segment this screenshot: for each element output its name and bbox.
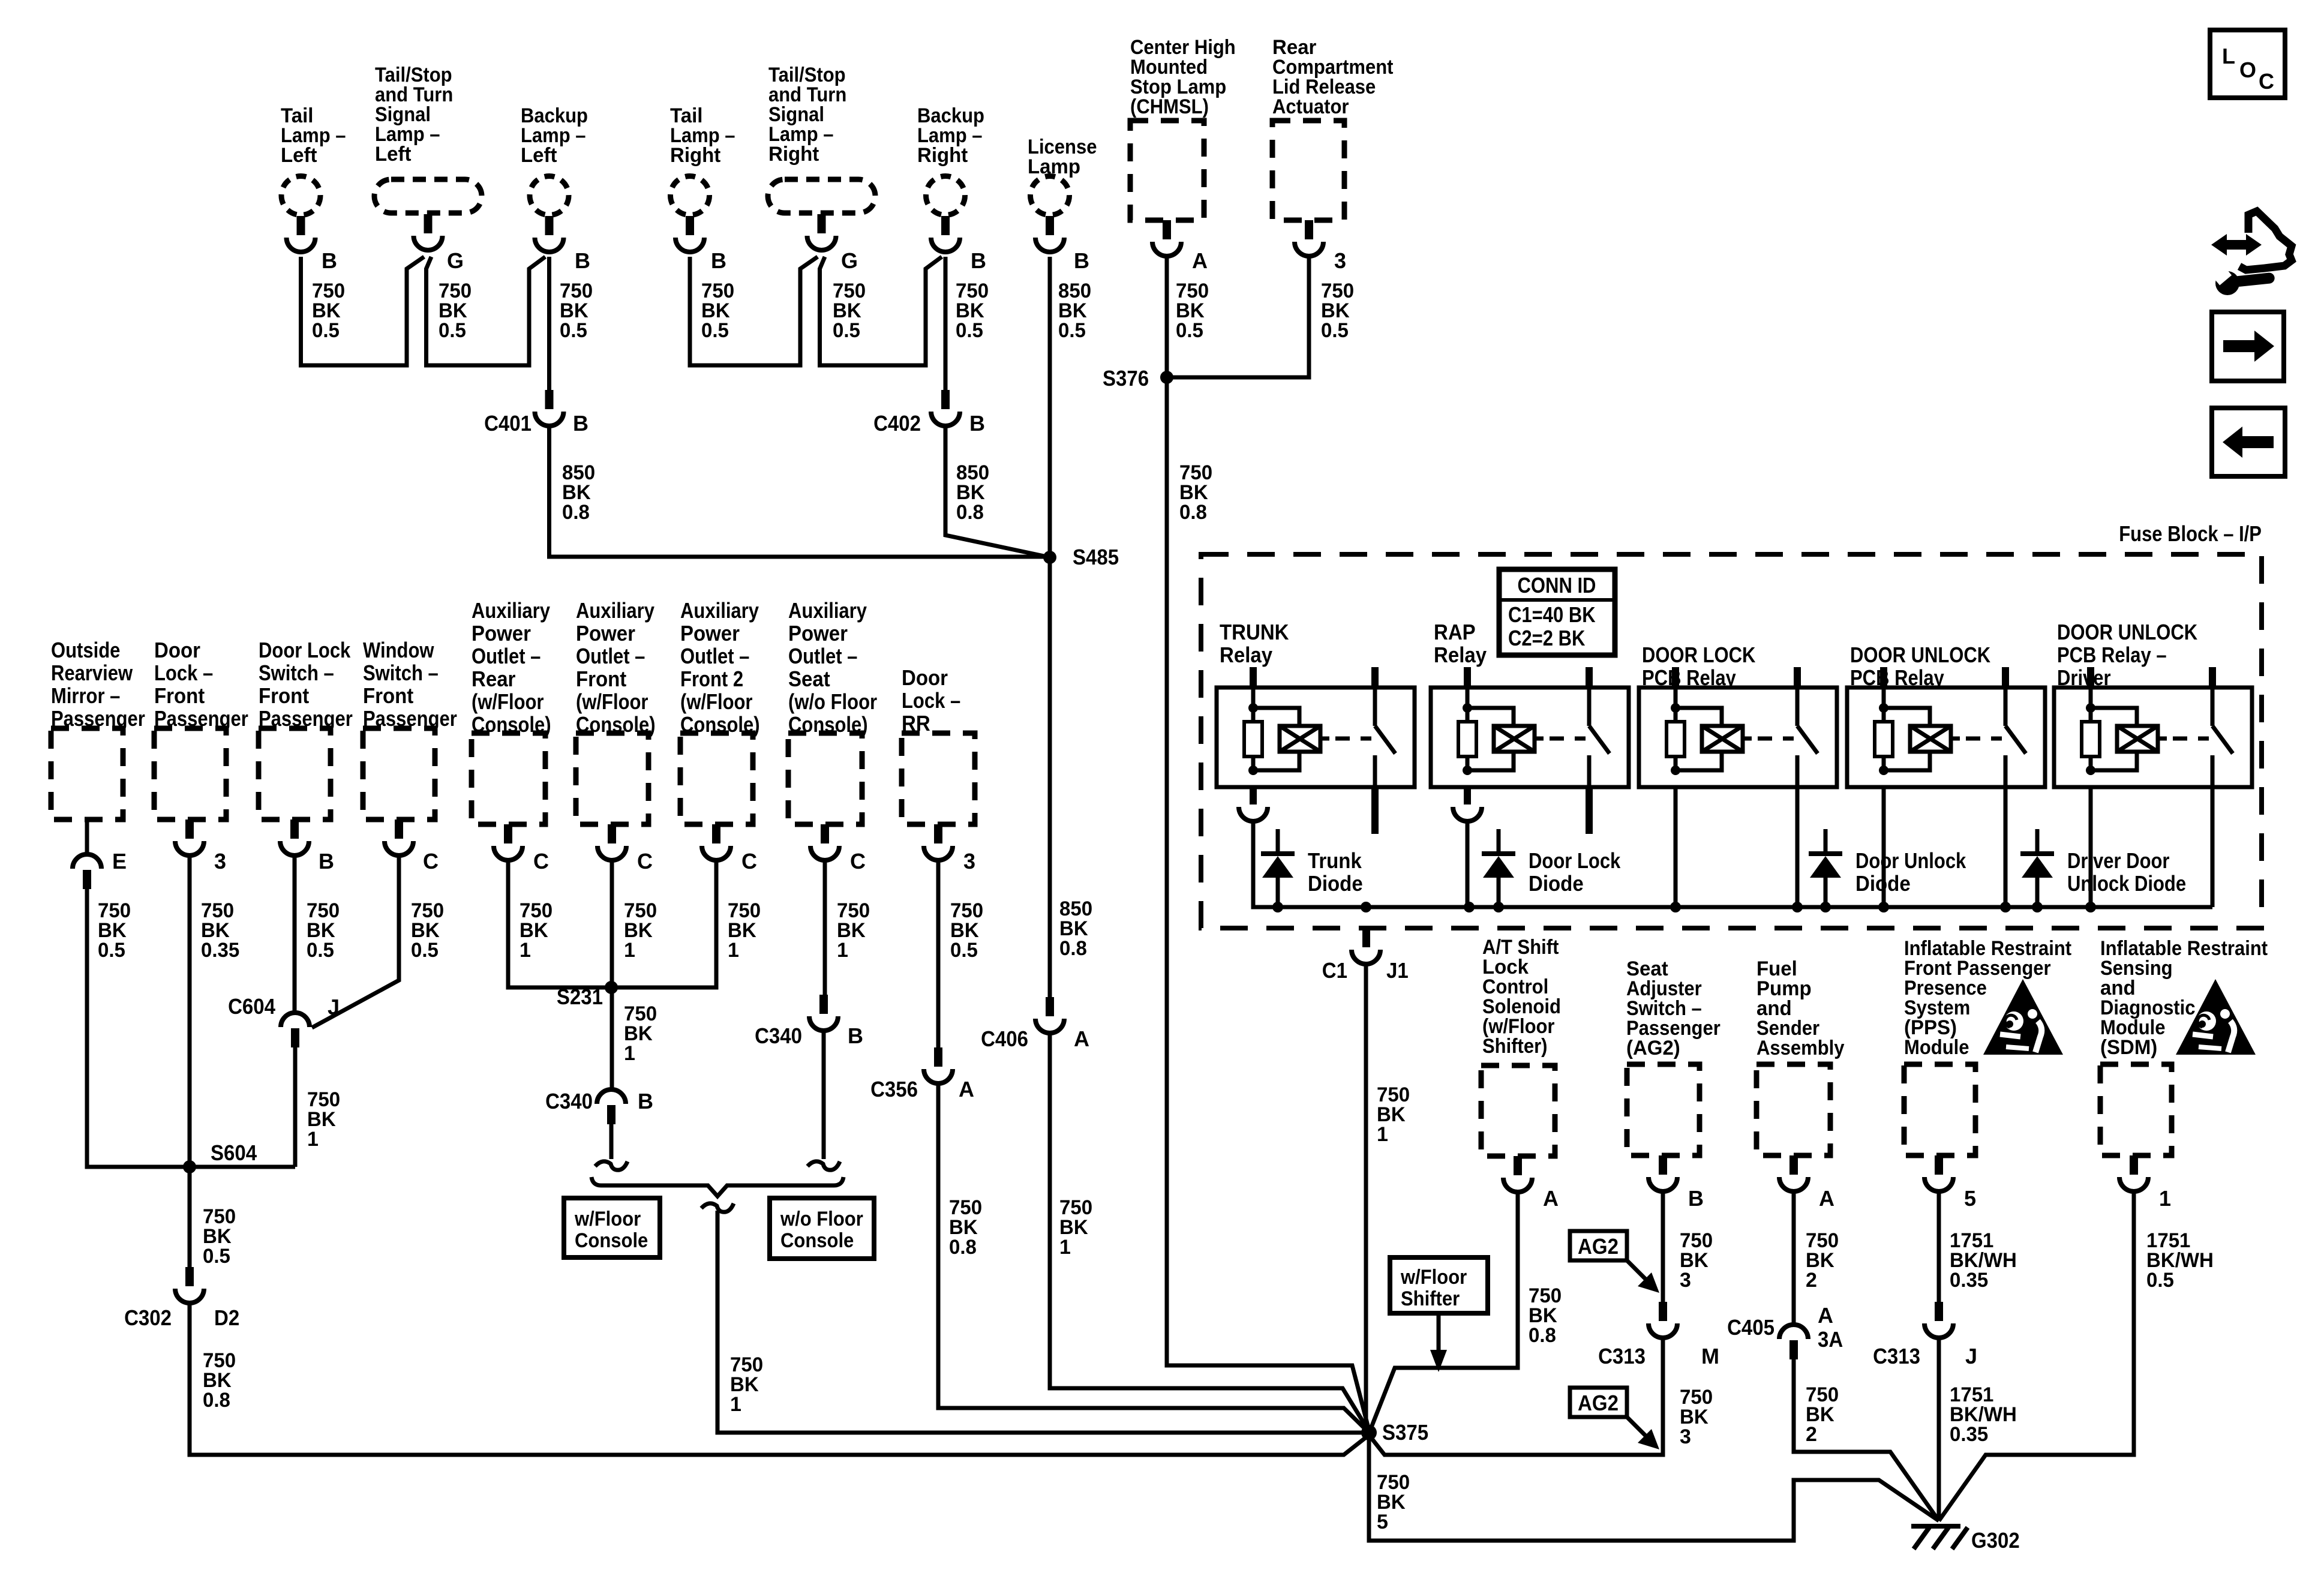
relay DOOR UNLOCK PCB relay coil link wires xyxy=(1884,708,1930,726)
component Auxiliary Power Outlet - Front 2 box xyxy=(680,733,753,824)
wire aux seat to C340 xyxy=(823,860,827,995)
svg-text:C340: C340 xyxy=(545,1089,593,1113)
svg-text:RAP: RAP xyxy=(1434,620,1476,644)
svg-text:0.8: 0.8 xyxy=(956,501,984,524)
wire window switch diagonal to C604 xyxy=(312,855,399,1028)
diode Door Lock diode xyxy=(1497,829,1501,852)
relay DOOR LOCK PCB relay coil circuit xyxy=(1674,688,1678,722)
svg-text:1: 1 xyxy=(1059,1236,1071,1259)
component SDM box xyxy=(2100,1064,2172,1155)
svg-text:0.35: 0.35 xyxy=(1950,1269,1988,1292)
svg-text:C313: C313 xyxy=(1598,1344,1646,1368)
svg-text:0.5: 0.5 xyxy=(439,319,466,342)
svg-text:1: 1 xyxy=(624,939,635,962)
relay RAP relay coil link wires xyxy=(1467,708,1514,726)
svg-text:C: C xyxy=(741,849,757,873)
lamp License Lamp xyxy=(1031,176,1070,215)
svg-text:Right: Right xyxy=(670,144,720,167)
diode Driver Door Unlock diode xyxy=(2035,829,2040,852)
lamp L2 Tail/Stop and Turn Signal Lamp - Left xyxy=(374,179,482,213)
svg-text:C2=2 BK: C2=2 BK xyxy=(1508,626,1585,650)
connector C604 xyxy=(281,1013,310,1027)
warning triangle icon (PPS) xyxy=(1983,979,2063,1055)
w/Floor Shifter arrow xyxy=(1437,1313,1441,1351)
relay DOOR UNLOCK PCB relay - Driver switch contact xyxy=(2211,688,2215,726)
connector E (mirror) xyxy=(73,854,101,869)
lamp L3 Backup Lamp - Left xyxy=(530,176,569,215)
svg-text:B: B xyxy=(638,1089,653,1113)
svg-text:w/Floor: w/Floor xyxy=(1400,1266,1467,1289)
branch end squiggle (w/o floor console) xyxy=(807,1161,840,1170)
svg-text:0.5: 0.5 xyxy=(203,1245,230,1268)
fuse block dashed border xyxy=(1201,554,2262,928)
connector pin C (aux rear) xyxy=(504,824,512,843)
svg-text:C: C xyxy=(850,849,866,873)
lamp R3 Backup Lamp - Right xyxy=(926,176,965,215)
lamp L1 Tail Lamp - Left xyxy=(281,176,320,215)
component Rear Compartment Lid Release Actuator box xyxy=(1272,121,1344,220)
lamp R1 Tail Lamp - Right xyxy=(671,176,710,215)
connector pin 5 (PPS) xyxy=(1935,1155,1943,1175)
wire C313 J to G302 xyxy=(1937,1338,1941,1521)
connector C402 xyxy=(941,390,950,409)
svg-text:Driver Door: Driver Door xyxy=(2067,848,2170,873)
connector C1 / J1 xyxy=(1362,928,1370,947)
svg-text:AG2: AG2 xyxy=(1578,1234,1619,1259)
svg-text:C: C xyxy=(423,849,439,873)
relay RAP relay coil output connector xyxy=(1464,787,1471,804)
connector pin B (tail lamp left) xyxy=(297,216,305,235)
svg-text:Switch –: Switch – xyxy=(259,661,334,685)
svg-text:1: 1 xyxy=(728,939,739,962)
svg-text:A: A xyxy=(1818,1303,1833,1328)
wire A/T solenoid to S375 xyxy=(1370,1192,1518,1430)
wire tail/stop-right to backup-right xyxy=(820,257,942,365)
connector pin B (door lock switch) xyxy=(290,819,299,839)
wire seat adjuster to C313 M xyxy=(1661,1191,1665,1302)
relay DOOR UNLOCK PCB relay switch output wire to bus xyxy=(2004,787,2008,907)
lamp R2 Tail/Stop and Turn Signal Lamp - Right xyxy=(768,179,875,213)
connector C313 pin J xyxy=(1935,1302,1943,1321)
svg-text:D2: D2 xyxy=(214,1305,239,1330)
LOC legend box xyxy=(2210,30,2285,98)
brace joining floor-console branches xyxy=(591,1177,843,1196)
svg-text:Assembly: Assembly xyxy=(1756,1037,1845,1059)
splice S604 xyxy=(183,1160,196,1173)
relay DOOR UNLOCK PCB relay box xyxy=(1847,688,2045,787)
relay DOOR LOCK PCB relay coil link wires xyxy=(1676,708,1722,726)
relay DOOR UNLOCK PCB relay switch pin xyxy=(2002,667,2009,688)
svg-text:Door Unlock: Door Unlock xyxy=(1855,848,1966,873)
svg-text:Relay: Relay xyxy=(1434,643,1487,667)
connector pin B (seat adjuster) xyxy=(1659,1155,1667,1175)
svg-text:Front 2: Front 2 xyxy=(680,667,743,691)
wire aux rear to S231 xyxy=(508,860,611,987)
wire tail-right to tail/stop-right xyxy=(690,257,818,365)
CONN ID table xyxy=(1499,569,1615,655)
connector pin C (aux seat) xyxy=(821,824,829,843)
svg-text:Lock –: Lock – xyxy=(902,688,960,713)
svg-text:Auxiliary: Auxiliary xyxy=(576,598,654,623)
svg-text:O: O xyxy=(2239,58,2256,82)
svg-text:0.8: 0.8 xyxy=(1529,1324,1556,1347)
svg-text:0.5: 0.5 xyxy=(312,319,340,342)
svg-text:C1=40 BK: C1=40 BK xyxy=(1508,602,1596,627)
svg-text:3: 3 xyxy=(1334,248,1346,273)
component CHMSL box xyxy=(1130,121,1204,220)
component A/T Shift Lock Control Solenoid box xyxy=(1481,1065,1555,1156)
relay DOOR LOCK PCB relay switch output wire to bus xyxy=(1795,787,1800,907)
svg-text:0.5: 0.5 xyxy=(98,939,125,962)
wire lid release actuator to S376 xyxy=(1167,257,1309,377)
svg-text:Power: Power xyxy=(680,621,740,646)
connector pin 3 (door lock front passenger) xyxy=(185,819,194,839)
connector C340 (seat branch) xyxy=(819,995,828,1014)
component Window Switch - Front Passenger box xyxy=(363,728,435,819)
svg-text:1: 1 xyxy=(2159,1186,2171,1211)
component Auxiliary Power Outlet - Seat box xyxy=(788,733,862,824)
relay TRUNK relay coil output connector xyxy=(1250,787,1257,804)
splice S231 xyxy=(605,981,618,994)
wire C356 to S375 xyxy=(938,1083,1369,1433)
svg-text:B: B xyxy=(575,248,590,273)
connector pin G (tail/stop right) xyxy=(818,214,826,233)
svg-text:B: B xyxy=(969,411,985,436)
svg-text:1: 1 xyxy=(1377,1123,1388,1146)
svg-text:Auxiliary: Auxiliary xyxy=(680,598,759,623)
svg-text:Diode: Diode xyxy=(1308,871,1363,896)
relay DOOR UNLOCK PCB relay switch contact xyxy=(2004,688,2008,726)
svg-text:Outside: Outside xyxy=(51,638,120,662)
svg-text:Actuator: Actuator xyxy=(1272,95,1349,118)
connector C302 xyxy=(185,1267,194,1286)
AG2 arrow 2 xyxy=(1627,1417,1647,1437)
svg-text:B: B xyxy=(971,248,986,273)
relay DOOR LOCK PCB relay switch contact xyxy=(1795,688,1800,726)
splice S375 xyxy=(1361,1425,1377,1440)
relay DOOR UNLOCK PCB relay coil output wire to bus xyxy=(1882,787,1886,907)
svg-text:(w/Floor: (w/Floor xyxy=(472,689,544,714)
connector pin B (backup lamp right) xyxy=(941,216,950,235)
wire mirror E to S604 xyxy=(87,889,295,1167)
svg-text:C: C xyxy=(2259,69,2274,94)
component PPS Module box xyxy=(1904,1064,1975,1155)
svg-text:Power: Power xyxy=(788,621,848,646)
svg-text:Fuse Block – I/P: Fuse Block – I/P xyxy=(2119,521,2262,546)
svg-text:Door: Door xyxy=(154,638,200,662)
splice S485 xyxy=(1043,551,1056,564)
connector C340 (floor console harness) xyxy=(597,1089,626,1104)
svg-text:Unlock Diode: Unlock Diode xyxy=(2067,871,2186,896)
wire S375 ground lead 750 BK 5 xyxy=(1369,1433,1939,1541)
warning triangle icon (SDM) xyxy=(2176,979,2256,1055)
svg-text:0.5: 0.5 xyxy=(2146,1269,2174,1292)
wire door lock RR to C356 xyxy=(936,860,941,1047)
branch continuation squiggle below brace xyxy=(701,1203,734,1212)
svg-text:PCB Relay –: PCB Relay – xyxy=(2057,643,2167,667)
relay RAP relay box xyxy=(1431,688,1629,787)
svg-text:A: A xyxy=(1074,1026,1089,1051)
svg-text:w/o Floor: w/o Floor xyxy=(780,1208,863,1230)
svg-text:Auxiliary: Auxiliary xyxy=(788,598,867,623)
relay DOOR UNLOCK PCB relay coil pin xyxy=(1880,667,1887,688)
connector C401 xyxy=(545,390,554,409)
relay RAP relay switch pin xyxy=(1586,667,1593,688)
wire door lock switch down to C604 xyxy=(293,855,297,1013)
relay DOOR LOCK PCB relay coil symbol xyxy=(1702,726,1743,752)
relay TRUNK relay box xyxy=(1217,688,1415,787)
svg-text:1: 1 xyxy=(730,1393,741,1416)
wire PPS to C313 J xyxy=(1937,1191,1941,1302)
svg-text:Outlet –: Outlet – xyxy=(576,644,645,668)
wire backup-right down to C402 xyxy=(944,257,948,390)
wire backup-left down to C401 xyxy=(547,257,551,390)
AG2 tag box 2 xyxy=(1570,1388,1627,1417)
relay RAP relay coil symbol xyxy=(1494,726,1535,752)
relay DOOR UNLOCK PCB relay - Driver box xyxy=(2054,688,2252,787)
wire CHMSL down to S376 and S375 xyxy=(1167,257,1369,1430)
wire C401 to S485 xyxy=(550,426,1050,557)
svg-text:0.5: 0.5 xyxy=(1321,319,1349,342)
svg-text:Power: Power xyxy=(576,621,635,646)
svg-text:1: 1 xyxy=(837,939,848,962)
connector pin B (backup lamp left) xyxy=(545,216,554,235)
svg-text:Outlet –: Outlet – xyxy=(788,644,857,668)
svg-text:B: B xyxy=(848,1023,863,1048)
relay DOOR LOCK PCB relay coil pin xyxy=(1672,667,1679,688)
svg-text:(w/Floor: (w/Floor xyxy=(680,689,753,714)
svg-text:J1: J1 xyxy=(1386,958,1409,983)
relay TRUNK relay switch stub xyxy=(1371,787,1379,834)
svg-text:(SDM): (SDM) xyxy=(2100,1036,2157,1059)
branch end squiggle (w/floor console) xyxy=(595,1161,627,1170)
svg-text:3: 3 xyxy=(1680,1425,1691,1448)
relay DOOR UNLOCK PCB relay actuating dashed link xyxy=(1951,737,1960,741)
connector pin C (window switch) xyxy=(395,819,403,839)
relay TRUNK relay coil circuit xyxy=(1251,688,1256,722)
relay DOOR LOCK PCB relay box xyxy=(1639,688,1837,787)
svg-text:5: 5 xyxy=(1964,1186,1976,1211)
wire C313 M to S375 xyxy=(1369,1338,1663,1455)
svg-text:S485: S485 xyxy=(1073,545,1119,569)
hand and wrench icon xyxy=(2211,234,2262,256)
svg-text:Rear: Rear xyxy=(472,667,515,691)
svg-text:Outlet –: Outlet – xyxy=(472,644,541,668)
fuse block internal ground bus xyxy=(1253,821,2212,907)
wire C402 to S485 xyxy=(945,426,1050,557)
svg-text:Shifter: Shifter xyxy=(1401,1287,1460,1310)
relay DOOR LOCK PCB relay coil output wire to bus xyxy=(1674,787,1678,907)
svg-text:Front: Front xyxy=(154,683,205,708)
relay RAP relay switch contact xyxy=(1587,688,1592,726)
relay DOOR LOCK PCB relay switch pin xyxy=(1794,667,1801,688)
connector pin A (CHMSL) xyxy=(1163,220,1171,239)
relay TRUNK relay coil link wires xyxy=(1253,708,1299,726)
svg-text:Door: Door xyxy=(902,665,948,690)
w/Floor Shifter tag box xyxy=(1390,1257,1488,1313)
svg-text:G: G xyxy=(841,248,858,273)
svg-text:0.5: 0.5 xyxy=(560,319,587,342)
svg-text:0.8: 0.8 xyxy=(562,501,590,524)
wire license lamp through S485 to C406 xyxy=(1048,257,1052,997)
svg-text:Right: Right xyxy=(917,144,968,167)
relay RAP relay actuating dashed link xyxy=(1535,737,1544,741)
svg-text:C402: C402 xyxy=(873,411,921,436)
svg-text:B: B xyxy=(319,849,334,873)
svg-text:0.5: 0.5 xyxy=(307,939,334,962)
component Door Lock - Front Passenger box xyxy=(154,728,226,819)
svg-text:w/Floor: w/Floor xyxy=(574,1208,641,1230)
ground G302 symbol xyxy=(1911,1524,1960,1529)
wire mirror to E connector xyxy=(85,819,89,854)
component Fuel Pump and Sender Assembly box xyxy=(1756,1064,1830,1155)
svg-text:A: A xyxy=(959,1077,974,1101)
component Outside Rearview Mirror - Passenger box xyxy=(51,728,123,819)
svg-text:DOOR UNLOCK: DOOR UNLOCK xyxy=(1850,643,1990,667)
svg-text:Lock –: Lock – xyxy=(154,661,213,685)
svg-text:S604: S604 xyxy=(211,1140,257,1165)
connector pin 3 (door lock RR) xyxy=(934,824,942,843)
svg-text:S376: S376 xyxy=(1103,366,1149,391)
svg-text:C313: C313 xyxy=(1873,1344,1920,1368)
svg-text:A: A xyxy=(1543,1186,1559,1211)
svg-text:E: E xyxy=(112,849,127,873)
svg-text:M: M xyxy=(1701,1344,1719,1368)
connector pin 3 (lid release actuator) xyxy=(1305,220,1313,239)
svg-text:Rearview: Rearview xyxy=(51,661,133,685)
connector C405 pin A / 3A xyxy=(1779,1325,1808,1339)
svg-text:1: 1 xyxy=(624,1042,635,1065)
svg-text:J: J xyxy=(1965,1344,1977,1368)
svg-text:C: C xyxy=(533,849,549,873)
svg-text:Left: Left xyxy=(281,144,317,167)
svg-text:Console: Console xyxy=(780,1229,854,1252)
svg-text:Right: Right xyxy=(768,143,819,166)
wire aux front 2 to S231 xyxy=(611,860,716,987)
AG2 arrow 1 xyxy=(1627,1260,1647,1281)
svg-text:Door Lock: Door Lock xyxy=(1529,848,1621,873)
relay DOOR LOCK PCB relay actuating dashed link xyxy=(1743,737,1752,741)
svg-text:B: B xyxy=(573,411,588,436)
svg-text:AG2: AG2 xyxy=(1578,1391,1619,1415)
svg-text:0.8: 0.8 xyxy=(1059,937,1087,960)
relay TRUNK relay coil output wire to bus xyxy=(1251,821,1256,907)
relay RAP relay coil circuit xyxy=(1466,688,1470,722)
relay TRUNK relay actuating dashed link xyxy=(1320,737,1329,741)
relay DOOR UNLOCK PCB relay - Driver coil pin xyxy=(2087,667,2094,688)
svg-text:0.8: 0.8 xyxy=(203,1389,230,1412)
svg-text:Relay: Relay xyxy=(1220,643,1272,667)
svg-text:0.5: 0.5 xyxy=(411,939,439,962)
svg-text:G302: G302 xyxy=(1971,1528,2020,1553)
diode Trunk diode xyxy=(1276,829,1280,852)
prev-page arrow box xyxy=(2212,408,2285,476)
relay DOOR UNLOCK PCB relay - Driver switch output wire to bus xyxy=(2211,787,2215,907)
relay RAP relay coil output wire to bus xyxy=(1466,821,1470,907)
svg-text:3A: 3A xyxy=(1818,1327,1843,1352)
AG2 tag box 1 xyxy=(1570,1231,1627,1260)
wire tail/stop-left to backup-left xyxy=(427,257,546,365)
relay DOOR UNLOCK PCB relay - Driver coil link wires xyxy=(2091,708,2137,726)
svg-text:S231: S231 xyxy=(557,984,603,1009)
wire C340 to floor-console branch end xyxy=(609,1124,614,1159)
svg-text:2: 2 xyxy=(1806,1269,1817,1292)
svg-text:TRUNK: TRUNK xyxy=(1220,620,1289,644)
svg-text:C1: C1 xyxy=(1322,958,1347,983)
svg-text:0.35: 0.35 xyxy=(1950,1423,1988,1446)
wire seat C340 to branch end xyxy=(822,1031,826,1159)
svg-text:Auxiliary: Auxiliary xyxy=(472,598,550,623)
connector pin C (aux front) xyxy=(608,824,616,843)
relay DOOR UNLOCK PCB relay - Driver switch pin xyxy=(2209,667,2216,688)
svg-text:0.8: 0.8 xyxy=(949,1236,977,1259)
svg-text:A: A xyxy=(1192,248,1208,273)
svg-text:S375: S375 xyxy=(1382,1420,1428,1445)
svg-text:Left: Left xyxy=(521,144,557,167)
relay DOOR UNLOCK PCB relay - Driver coil output wire to bus xyxy=(2089,787,2093,907)
svg-text:B: B xyxy=(1074,248,1089,273)
connector C406 xyxy=(1046,997,1054,1016)
svg-text:Front: Front xyxy=(363,683,413,708)
connector pin C (aux front 2) xyxy=(712,824,720,843)
relay DOOR UNLOCK PCB relay coil symbol xyxy=(1910,726,1951,752)
connector C313 pin M xyxy=(1659,1302,1667,1321)
svg-text:(w/o Floor: (w/o Floor xyxy=(788,689,877,714)
connector pin B (license lamp) xyxy=(1046,216,1054,235)
svg-text:0.8: 0.8 xyxy=(1179,501,1207,524)
relay DOOR UNLOCK PCB relay coil circuit xyxy=(1882,688,1886,722)
svg-text:Switch –: Switch – xyxy=(363,661,439,685)
svg-text:DOOR UNLOCK: DOOR UNLOCK xyxy=(2057,620,2197,644)
svg-text:(CHMSL): (CHMSL) xyxy=(1130,95,1209,118)
svg-text:C604: C604 xyxy=(228,994,275,1019)
relay TRUNK relay coil pin xyxy=(1250,667,1257,688)
wire C406 to S375 xyxy=(1050,1033,1369,1431)
component Door Lock Switch - Front Passenger box xyxy=(259,728,331,819)
svg-text:3: 3 xyxy=(963,849,975,873)
relay TRUNK relay coil symbol xyxy=(1280,726,1320,752)
component Auxiliary Power Outlet - Rear box xyxy=(472,733,545,824)
bus junction dots xyxy=(1272,902,1283,912)
relay TRUNK relay switch contact xyxy=(1373,688,1377,726)
svg-text:C406: C406 xyxy=(981,1026,1028,1051)
driver relay switch wire to bus xyxy=(2211,787,2215,907)
w/Floor Console tag box xyxy=(564,1198,660,1257)
svg-text:C401: C401 xyxy=(484,411,532,436)
wire brace to S375 xyxy=(717,1211,1369,1433)
wire aux front through S231 to C340 xyxy=(610,860,614,1089)
relay RAP relay switch stub xyxy=(1586,787,1593,834)
svg-text:CONN ID: CONN ID xyxy=(1518,573,1596,598)
wire C1 to S375 xyxy=(1364,964,1368,1433)
svg-text:B: B xyxy=(1688,1186,1704,1211)
svg-text:Console: Console xyxy=(575,1229,648,1252)
svg-text:3: 3 xyxy=(1680,1269,1691,1292)
wire door lock to S604 and C302 xyxy=(188,855,192,1267)
svg-text:C340: C340 xyxy=(755,1023,802,1048)
connector pin A (A/T solenoid) xyxy=(1514,1156,1522,1175)
splice S376 xyxy=(1160,371,1173,384)
svg-text:0.5: 0.5 xyxy=(950,939,978,962)
svg-text:Diode: Diode xyxy=(1855,871,1911,896)
svg-text:Module: Module xyxy=(1904,1036,1969,1059)
svg-text:J: J xyxy=(328,995,340,1019)
svg-text:Trunk: Trunk xyxy=(1308,848,1362,873)
relay RAP relay coil pin xyxy=(1464,667,1471,688)
svg-text:Diode: Diode xyxy=(1529,871,1584,896)
w/o Floor Console tag box xyxy=(770,1198,874,1259)
svg-text:3: 3 xyxy=(214,849,226,873)
